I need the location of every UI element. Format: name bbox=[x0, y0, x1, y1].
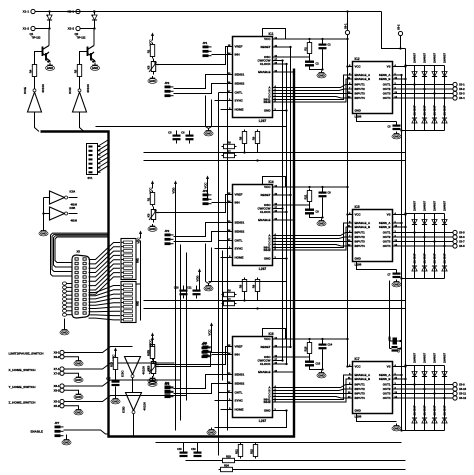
svg-text:1N4007: 1N4007 bbox=[432, 105, 436, 116]
svg-text:C16: C16 bbox=[389, 336, 392, 341]
svg-text:X9-2: X9-2 bbox=[54, 355, 60, 359]
ground osc row2 bbox=[317, 219, 326, 226]
svg-text:VCC: VCC bbox=[355, 213, 362, 217]
diode DX2 bbox=[92, 12, 97, 29]
svg-text:GND: GND bbox=[318, 374, 324, 378]
IC IC7 L298 driver bbox=[348, 357, 398, 419]
svg-text:L298: L298 bbox=[355, 263, 362, 267]
connector X2-1 bbox=[68, 9, 80, 13]
svg-text:1N4007: 1N4007 bbox=[442, 405, 446, 416]
svg-text:GND: GND bbox=[264, 409, 272, 413]
capacitor CA row1 bbox=[168, 131, 180, 144]
svg-text:GND: GND bbox=[75, 362, 81, 366]
svg-text:X1-2: X1-2 bbox=[23, 27, 30, 31]
svg-text:INH: INH bbox=[235, 201, 240, 205]
svg-text:INPUT3: INPUT3 bbox=[355, 392, 366, 396]
wire JPa to INH row2 bbox=[212, 202, 228, 204]
svg-text:1N4007: 1N4007 bbox=[432, 253, 436, 264]
svg-text:GND: GND bbox=[355, 409, 361, 413]
power VCC R17 bbox=[148, 337, 154, 350]
svg-text:HOME: HOME bbox=[235, 108, 244, 112]
connector X2-2 bbox=[68, 26, 80, 30]
svg-text:VREF: VREF bbox=[235, 45, 243, 49]
svg-text:SYNC: SYNC bbox=[235, 247, 244, 251]
wire row3 sense horizontals bbox=[156, 443, 406, 470]
resistor RD h row1 bbox=[222, 149, 237, 157]
svg-text:1N4007: 1N4007 bbox=[412, 405, 416, 416]
resistor R2 osc row1 bbox=[303, 41, 311, 56]
wire cntl/sync/home row3 bbox=[215, 393, 228, 410]
svg-text:GND: GND bbox=[75, 411, 81, 415]
svg-text:GND: GND bbox=[355, 257, 361, 261]
svg-text:GND: GND bbox=[393, 283, 399, 287]
diode D11 1N4007 bbox=[432, 200, 437, 224]
resistor R22 bbox=[249, 443, 257, 459]
diode D17 1N4007 bbox=[412, 352, 417, 376]
svg-text:GND: GND bbox=[264, 257, 272, 261]
svg-text:JP1: JP1 bbox=[203, 189, 208, 193]
svg-text:1N4007: 1N4007 bbox=[422, 52, 426, 63]
wire VS to IC7 bbox=[398, 365, 407, 367]
svg-text:OUT2: OUT2 bbox=[383, 387, 391, 391]
svg-text:X3-3: X3-3 bbox=[459, 92, 465, 96]
capacitor C17b row3 bbox=[392, 346, 401, 353]
svg-text:IC3A: IC3A bbox=[70, 191, 76, 194]
svg-text:1N4007: 1N4007 bbox=[412, 200, 416, 211]
svg-text:OUT3: OUT3 bbox=[383, 92, 391, 96]
svg-text:40106: 40106 bbox=[143, 402, 147, 411]
svg-text:INPUT3: INPUT3 bbox=[355, 92, 366, 96]
inverter IC3 ch1 bbox=[68, 79, 90, 113]
ground switch X8 bbox=[74, 392, 83, 399]
wire X1 mid bbox=[35, 27, 50, 29]
resistor sense RA row1 bbox=[238, 130, 246, 146]
svg-text:GND: GND bbox=[75, 378, 81, 382]
svg-text:GND: GND bbox=[264, 109, 272, 113]
svg-text:R2: R2 bbox=[303, 47, 307, 51]
svg-text:C19: C19 bbox=[191, 449, 196, 451]
resistor R19 bbox=[109, 356, 117, 372]
connector X1-1 bbox=[23, 9, 35, 13]
svg-text:R23: R23 bbox=[226, 454, 231, 458]
svg-text:JP2: JP2 bbox=[165, 81, 170, 85]
wire switch X9 gnd bbox=[64, 357, 78, 359]
svg-text:X3-11: X3-11 bbox=[459, 392, 467, 396]
svg-text:SENS2: SENS2 bbox=[235, 382, 245, 386]
diode D10 1N4007 bbox=[422, 200, 427, 224]
svg-text:VCC: VCC bbox=[203, 182, 207, 189]
resistor RD h row2 bbox=[222, 297, 237, 305]
ground switch X5 bbox=[74, 408, 83, 415]
svg-text:R8: R8 bbox=[238, 136, 242, 140]
ground X5 bbox=[60, 328, 69, 335]
diode DX1 bbox=[47, 12, 52, 29]
connector X9-1 bbox=[54, 350, 65, 354]
svg-text:CLOCK: CLOCK bbox=[260, 210, 271, 214]
svg-text:HOME: HOME bbox=[235, 256, 244, 260]
svg-text:IC2: IC2 bbox=[355, 57, 360, 61]
svg-text:ENABLE: ENABLE bbox=[258, 218, 270, 222]
potentiometer K row1 bbox=[146, 59, 159, 75]
svg-text:R17: R17 bbox=[146, 351, 150, 356]
wire clock/cw/reset stubs row3 bbox=[278, 346, 292, 365]
capacitor C7 below IC5 bbox=[387, 273, 400, 279]
capacitor CB row1 bbox=[181, 131, 193, 144]
svg-text:VDD: VDD bbox=[195, 276, 199, 282]
svg-text:X6-1: X6-1 bbox=[343, 23, 347, 29]
svg-text:JP1: JP1 bbox=[203, 41, 208, 45]
jumper JPb row3 bbox=[165, 381, 174, 397]
svg-text:IC6: IC6 bbox=[269, 332, 274, 336]
diode D7 1N4007 bbox=[432, 105, 437, 123]
svg-text:INPUT1: INPUT1 bbox=[355, 231, 366, 235]
wire bus VCC x347 vertical bbox=[347, 35, 349, 367]
svg-text:GND: GND bbox=[318, 222, 324, 226]
svg-text:IC5: IC5 bbox=[355, 205, 360, 209]
wire ENABLE row1 bbox=[278, 71, 296, 73]
ground R19 bbox=[111, 387, 120, 404]
diode D21 1N4007 bbox=[412, 405, 417, 423]
resistor sense RA row2 bbox=[238, 278, 246, 294]
diode D5 1N4007 bbox=[412, 105, 417, 123]
svg-text:VCC: VCC bbox=[264, 337, 271, 341]
svg-text:INPUT3: INPUT3 bbox=[355, 240, 366, 244]
connector X5 DB25 bbox=[72, 250, 90, 319]
connector X5-2 bbox=[54, 404, 65, 408]
wire thick enable bus box bbox=[41, 69, 295, 437]
svg-text:JP7: JP7 bbox=[55, 421, 60, 425]
svg-text:Q2: Q2 bbox=[75, 32, 79, 36]
svg-text:SENS1: SENS1 bbox=[235, 221, 245, 225]
svg-text:1N4007: 1N4007 bbox=[412, 52, 416, 63]
svg-text:X3-5: X3-5 bbox=[459, 231, 465, 235]
wire VCC/OSC row3 bbox=[263, 329, 349, 371]
wire cntl/sync/home row1 bbox=[215, 93, 228, 110]
wire JPb row1 bbox=[174, 75, 228, 94]
svg-text:X5: X5 bbox=[77, 250, 81, 254]
IC IC2 L298 driver bbox=[348, 57, 398, 119]
svg-text:C10: C10 bbox=[174, 286, 179, 289]
svg-text:R8: R8 bbox=[238, 284, 242, 288]
wire bundle A-D/INH row1 bbox=[278, 75, 348, 102]
wire VCC to IC5 bbox=[346, 213, 348, 215]
capacitor C18 bbox=[177, 443, 187, 458]
resistor RC h row1 bbox=[222, 140, 237, 148]
svg-text:1N4007: 1N4007 bbox=[422, 253, 426, 264]
wire inverter out ch0 bbox=[35, 112, 40, 132]
inverter IC3 ch0 bbox=[23, 79, 45, 113]
svg-text:INPUT2: INPUT2 bbox=[355, 87, 366, 91]
svg-text:40106: 40106 bbox=[41, 84, 45, 93]
svg-text:VCC: VCC bbox=[264, 37, 271, 41]
svg-text:SYNC: SYNC bbox=[235, 399, 244, 403]
svg-text:1N4007: 1N4007 bbox=[422, 105, 426, 116]
svg-text:TIP-122: TIP-122 bbox=[32, 37, 42, 40]
diode D1 1N4007 bbox=[412, 52, 417, 76]
capacitor C9 row2 bbox=[305, 209, 319, 215]
svg-text:X3-7: X3-7 bbox=[459, 240, 465, 244]
ground pot row3 bbox=[148, 376, 157, 383]
svg-text:ENABLE: ENABLE bbox=[31, 430, 43, 434]
svg-text:1N4007: 1N4007 bbox=[442, 253, 446, 264]
svg-text:IC3D: IC3D bbox=[122, 407, 126, 413]
diode D14 1N4007 bbox=[422, 253, 427, 271]
wire JPa to INH row1 bbox=[212, 54, 228, 56]
wire SENS_B to rail row3 bbox=[398, 378, 407, 380]
svg-text:RESET: RESET bbox=[260, 345, 270, 349]
wire diode bottom rail row3 bbox=[400, 385, 444, 432]
svg-text:GND: GND bbox=[61, 331, 67, 335]
svg-text:OUT1: OUT1 bbox=[383, 383, 391, 387]
jumper JPb row2 bbox=[165, 229, 174, 245]
inverter IC3A bbox=[50, 191, 78, 207]
resistor R5 bbox=[73, 63, 81, 79]
wire base Q1 bbox=[35, 52, 36, 63]
wire gnd return row1 bbox=[96, 109, 288, 126]
svg-text:GND: GND bbox=[318, 74, 324, 78]
wire clock/cw/reset stubs row1 bbox=[278, 46, 292, 65]
connector X8-1 bbox=[54, 384, 65, 388]
svg-text:OUT4: OUT4 bbox=[383, 244, 391, 248]
wire switch X9 signal bbox=[64, 347, 132, 353]
capacitor C2 row1 bbox=[305, 61, 319, 67]
wire switch X8 signal bbox=[64, 380, 180, 386]
svg-text:OUT4: OUT4 bbox=[383, 396, 391, 400]
IC IC5 L298 driver bbox=[348, 205, 398, 267]
wire ENABLE row3 bbox=[278, 371, 296, 373]
svg-text:INPUT1: INPUT1 bbox=[355, 83, 366, 87]
wire rail y48 bbox=[382, 12, 406, 49]
svg-text:VS: VS bbox=[387, 65, 391, 69]
wire VCC/OSC row1 bbox=[263, 29, 349, 71]
wire X1 top bbox=[35, 10, 50, 12]
svg-text:GND: GND bbox=[149, 227, 155, 231]
svg-text:OUT3: OUT3 bbox=[383, 240, 391, 244]
jumper JPa row1 bbox=[203, 41, 212, 57]
diode D4 1N4007 bbox=[442, 52, 447, 76]
svg-text:1N4007: 1N4007 bbox=[432, 405, 436, 416]
wire diode bottom rail row2 bbox=[400, 233, 444, 280]
wire SENS_A to rail row1 bbox=[398, 74, 403, 76]
diode D19 1N4007 bbox=[432, 352, 437, 376]
svg-text:X6-2: X6-2 bbox=[396, 24, 400, 30]
connector X3 group row1 bbox=[453, 82, 465, 100]
svg-text:R11: R11 bbox=[303, 194, 307, 199]
svg-text:R24: R24 bbox=[224, 463, 229, 467]
svg-text:40106: 40106 bbox=[71, 220, 78, 223]
potentiometer K row2 bbox=[146, 207, 159, 223]
wire X5 fan to RN2 bbox=[89, 286, 121, 320]
wire IC3AB outputs bbox=[69, 198, 78, 214]
svg-text:JP6: JP6 bbox=[165, 382, 170, 386]
diode D13 1N4007 bbox=[412, 253, 417, 271]
wire outputs row3 bbox=[398, 385, 454, 399]
diode D24 1N4007 bbox=[442, 405, 447, 423]
connector SV1 bbox=[87, 144, 101, 181]
svg-text:X5-2: X5-2 bbox=[54, 404, 60, 408]
svg-text:R1: R1 bbox=[146, 197, 150, 201]
wire VS to IC5 bbox=[398, 213, 407, 215]
capacitor C8 row2 bbox=[319, 188, 332, 201]
svg-text:1N4007: 1N4007 bbox=[412, 105, 416, 116]
svg-text:RN1: RN1 bbox=[137, 257, 140, 262]
connector X6-1 bbox=[343, 12, 349, 35]
diode D20 1N4007 bbox=[442, 352, 447, 376]
inverter IC3C bbox=[121, 357, 146, 378]
diode D6 1N4007 bbox=[422, 105, 427, 123]
svg-text:X3-10: X3-10 bbox=[459, 387, 467, 391]
ground sense row2 bbox=[204, 284, 213, 291]
wire pot to VREF row2 bbox=[158, 195, 228, 213]
svg-text:1N4007: 1N4007 bbox=[442, 52, 446, 63]
ground row3 sense bbox=[207, 428, 216, 435]
power VCC row2 bbox=[148, 181, 154, 194]
svg-text:Y_HOME_SWITCH: Y_HOME_SWITCH bbox=[9, 385, 37, 389]
svg-text:R5: R5 bbox=[73, 69, 77, 73]
capacitor C16 row3 bbox=[389, 336, 398, 345]
resistor sense RB row2 bbox=[251, 278, 259, 294]
svg-text:40106: 40106 bbox=[86, 84, 90, 93]
wire bus CW vertical bbox=[282, 61, 284, 361]
power VCC R19 bbox=[111, 348, 117, 361]
wire cntl/sync/home row2 bbox=[215, 241, 228, 258]
svg-text:L297: L297 bbox=[259, 419, 267, 423]
svg-text:SENS_B: SENS_B bbox=[379, 77, 391, 81]
svg-text:OUT3: OUT3 bbox=[383, 392, 391, 396]
wire SENS_A to rail row2 bbox=[398, 222, 403, 224]
svg-text:L298: L298 bbox=[355, 415, 362, 419]
svg-text:C17: C17 bbox=[106, 379, 111, 381]
ground switch X9 bbox=[74, 359, 83, 366]
svg-text:C11: C11 bbox=[187, 286, 192, 289]
wire X5 ground column bbox=[63, 282, 73, 328]
resistor R18 osc row3 bbox=[303, 341, 311, 356]
wire VCC to IC2 bbox=[346, 65, 348, 67]
svg-text:VCC: VCC bbox=[207, 329, 211, 336]
jumper JPa row2 bbox=[203, 189, 212, 205]
connector X6-2 bbox=[396, 24, 402, 50]
svg-text:ENABLE_B: ENABLE_B bbox=[355, 377, 371, 381]
resistor RC h row2 bbox=[222, 288, 237, 296]
svg-text:IC3C: IC3C bbox=[121, 371, 125, 377]
wire SENS_B to rail row2 bbox=[398, 226, 407, 228]
svg-text:K5: K5 bbox=[146, 367, 150, 371]
wire diode top rail row2 bbox=[404, 212, 445, 247]
ground pot row2 bbox=[148, 224, 157, 231]
svg-text:X_HOME_SWITCH: X_HOME_SWITCH bbox=[9, 368, 37, 372]
wire base Q2 bbox=[80, 52, 81, 63]
svg-text:INPUT2: INPUT2 bbox=[355, 235, 366, 239]
diode D2 1N4007 bbox=[422, 52, 427, 76]
svg-text:SYNC: SYNC bbox=[235, 99, 244, 103]
wire sens drop row2 bbox=[206, 244, 212, 284]
IC IC6 L297 stepper controller bbox=[228, 332, 278, 423]
svg-text:K3: K3 bbox=[146, 65, 150, 69]
svg-text:ENABLE_B: ENABLE_B bbox=[355, 225, 371, 229]
resistor sense RB row1 bbox=[251, 130, 259, 146]
wire VS to IC2 bbox=[398, 65, 407, 67]
svg-text:X3-2: X3-2 bbox=[459, 87, 465, 91]
inverter IC3D bbox=[122, 393, 147, 414]
svg-text:INH2: INH2 bbox=[264, 248, 271, 252]
svg-text:1N4007: 1N4007 bbox=[422, 352, 426, 363]
svg-text:SENS1: SENS1 bbox=[235, 373, 245, 377]
wire JP5 link bbox=[158, 353, 228, 367]
power VCC jp5 row3 bbox=[207, 323, 213, 336]
wire JPa to INH row3 bbox=[212, 354, 228, 356]
connector X8-2 bbox=[54, 388, 65, 392]
resistor Rref row1 bbox=[146, 43, 154, 59]
wire IC3D out bbox=[133, 414, 135, 437]
wire enable jumper bbox=[64, 430, 109, 434]
diode D8 1N4007 bbox=[442, 105, 447, 123]
svg-text:OUT2: OUT2 bbox=[383, 87, 391, 91]
svg-text:L297: L297 bbox=[259, 267, 267, 271]
ground osc row3 bbox=[317, 371, 326, 378]
power VDD caps row2 bbox=[195, 269, 201, 282]
svg-text:C17: C17 bbox=[398, 347, 401, 352]
jumper JPb row1 bbox=[165, 81, 174, 97]
capacitor CA row2 bbox=[174, 286, 188, 299]
ground below IC5 bbox=[392, 280, 401, 287]
svg-text:GND: GND bbox=[63, 441, 69, 445]
transistor Q2 TIP-122 bbox=[75, 29, 96, 64]
svg-text:GND: GND bbox=[205, 132, 211, 136]
svg-text:GND: GND bbox=[208, 431, 214, 435]
svg-text:1N4007: 1N4007 bbox=[432, 200, 436, 211]
IC IC4 L297 stepper controller bbox=[228, 180, 278, 271]
svg-text:GND: GND bbox=[355, 109, 361, 113]
jumper JP5 bbox=[202, 342, 211, 358]
svg-text:GND: GND bbox=[149, 79, 155, 83]
wire pot to VREF row1 bbox=[158, 47, 228, 65]
wire pot to VREF row3 bbox=[158, 347, 228, 365]
wire mid verticals bbox=[218, 93, 220, 456]
resistor R11 osc row2 bbox=[303, 189, 311, 204]
wire gnd below IC2 bbox=[357, 118, 397, 125]
svg-text:C18: C18 bbox=[177, 449, 182, 451]
resistor Rref row2 bbox=[146, 191, 154, 207]
svg-text:SENS2: SENS2 bbox=[235, 230, 245, 234]
wire diode top rail row1 bbox=[404, 64, 445, 99]
jumper JP6 bbox=[165, 382, 174, 398]
resistor R21 bbox=[234, 443, 242, 459]
svg-text:R18: R18 bbox=[303, 346, 307, 351]
wire gnd return row2 bbox=[209, 257, 288, 281]
wire sense row2 bbox=[144, 293, 406, 310]
power VDD row2 bbox=[171, 181, 177, 194]
capacitor C15 row3 bbox=[305, 361, 321, 367]
ground sense row1 bbox=[204, 129, 213, 136]
wire SENS_B to rail row1 bbox=[398, 78, 407, 80]
svg-text:X8-2: X8-2 bbox=[54, 388, 60, 392]
wire VCC to IC7 bbox=[346, 365, 348, 367]
svg-text:INH2: INH2 bbox=[264, 100, 271, 104]
svg-text:OUT1: OUT1 bbox=[383, 231, 391, 235]
wire RN common bbox=[136, 241, 141, 321]
wire switch X5 signal bbox=[64, 396, 186, 402]
power VCC row1 bbox=[148, 33, 154, 46]
resistor network RN2 bbox=[121, 282, 140, 323]
transistor Q1 TIP-122 bbox=[30, 29, 51, 64]
wire bus CLOCK vertical bbox=[286, 64, 288, 364]
svg-text:IC3B: IC3B bbox=[70, 207, 76, 210]
wire JPb row2 bbox=[174, 223, 228, 242]
connector X7-2 bbox=[54, 371, 65, 375]
svg-text:GND: GND bbox=[75, 395, 81, 399]
wire switch X5 gnd bbox=[64, 406, 78, 408]
wire switch X7 signal bbox=[64, 363, 174, 369]
